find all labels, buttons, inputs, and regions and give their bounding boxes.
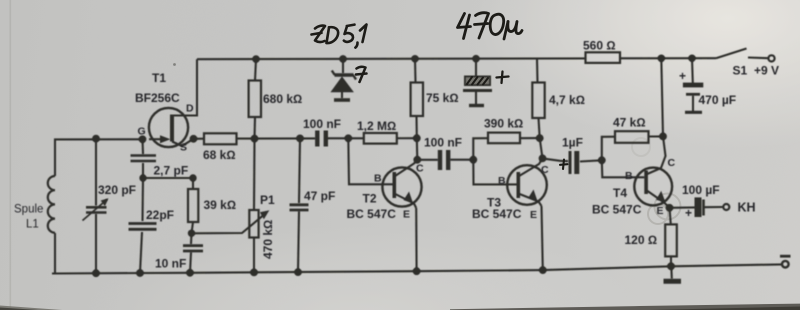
handwritten 470u <box>458 13 523 39</box>
node T4 base <box>598 156 606 164</box>
svg-text:560 Ω: 560 Ω <box>583 39 616 53</box>
svg-text:E: E <box>530 209 537 221</box>
svg-text:100 nF: 100 nF <box>424 136 462 150</box>
resistor R 1.2M <box>364 133 397 144</box>
node 47k right <box>659 133 667 141</box>
resistor R 75k <box>414 59 417 83</box>
svg-text:S: S <box>180 142 187 154</box>
svg-text:B: B <box>498 175 506 187</box>
node source T1 <box>190 135 198 143</box>
resistor R 120 <box>670 208 671 225</box>
node rail 47p <box>294 268 302 276</box>
svg-text:100 nF: 100 nF <box>303 117 341 131</box>
wire T1 source <box>172 139 194 146</box>
resistor R 4.7k <box>536 59 539 83</box>
svg-text:320 pF: 320 pF <box>98 183 136 197</box>
svg-text:C: C <box>416 163 424 175</box>
capacitor C 100uF <box>670 206 696 209</box>
switch S1 <box>716 49 747 59</box>
handwritten 7 at zener <box>356 67 367 82</box>
svg-text:10 nF: 10 nF <box>155 257 186 271</box>
handwritten ZD 5,1 <box>312 25 367 48</box>
node rail 320p <box>92 269 100 277</box>
svg-text:T2: T2 <box>363 192 377 206</box>
node 39k bottom <box>188 230 195 237</box>
node mid 47p <box>296 135 304 143</box>
node T3 collector <box>539 155 547 163</box>
svg-text:4,7 kΩ: 4,7 kΩ <box>549 93 585 107</box>
svg-text:680 kΩ: 680 kΩ <box>263 92 302 106</box>
node rail 22p <box>136 269 144 277</box>
capacitor C 1uF <box>543 158 569 161</box>
svg-text:1,2 MΩ: 1,2 MΩ <box>357 119 396 133</box>
svg-text:100 µF: 100 µF <box>682 183 720 197</box>
svg-text:C: C <box>668 157 676 169</box>
svg-text:Spule: Spule <box>14 204 43 216</box>
resistor R 560 <box>586 52 621 63</box>
paper speck near T1 <box>173 63 176 66</box>
svg-text:BC 547C: BC 547C <box>347 207 397 221</box>
photo dark edge bottom-right band <box>450 304 800 310</box>
svg-text:KH: KH <box>738 201 756 215</box>
svg-text:+9 V: +9 V <box>754 64 779 78</box>
arrow 320pF <box>101 198 109 206</box>
svg-text:L1: L1 <box>26 219 39 231</box>
svg-text:120 Ω: 120 Ω <box>625 233 658 247</box>
transistor T1 body <box>149 108 188 147</box>
node gate 2,7p <box>139 135 147 143</box>
svg-text:1µF: 1µF <box>562 136 583 150</box>
resistor R 68k <box>204 133 237 144</box>
node top rail 680k <box>252 55 260 63</box>
svg-text:C: C <box>541 164 549 176</box>
node mid 680k <box>251 135 259 143</box>
paper crease left edge <box>10 0 12 310</box>
svg-text:68 kΩ: 68 kΩ <box>203 148 236 162</box>
capacitor C 320pF (variable) <box>86 207 107 212</box>
arrow T1 gate <box>160 135 171 143</box>
node 39k top <box>189 174 196 181</box>
node top rail zener <box>339 55 347 63</box>
capacitor C 2,7pF <box>131 156 157 162</box>
wire gate branch <box>141 139 144 154</box>
mid wire stage1 <box>194 138 205 140</box>
svg-text:T4: T4 <box>613 186 627 200</box>
node top rail 470u <box>472 55 480 63</box>
arrow P1 wiper <box>260 210 270 219</box>
capacitor C 10nF <box>190 233 193 244</box>
svg-text:B: B <box>374 173 382 185</box>
node rail T3e <box>539 266 547 274</box>
svg-text:P1: P1 <box>260 193 275 207</box>
node top rail 75k <box>411 55 419 63</box>
wire wiper to P1 <box>192 214 266 234</box>
svg-text:22pF: 22pF <box>146 208 174 222</box>
svg-text:G: G <box>138 126 146 138</box>
resistor R 390k feedback <box>473 138 488 160</box>
node rail 10nF <box>186 269 194 277</box>
svg-text:E: E <box>403 209 410 221</box>
node 390k right <box>536 134 544 142</box>
svg-text:47 kΩ: 47 kΩ <box>613 116 646 130</box>
svg-text:75 kΩ: 75 kΩ <box>426 91 459 105</box>
svg-text:B: B <box>625 170 633 182</box>
svg-text:470 kΩ: 470 kΩ <box>261 220 275 259</box>
potentiometer P1 <box>253 139 256 210</box>
node top rail 470uF right <box>688 54 696 62</box>
svg-text:47 pF: 47 pF <box>304 189 335 203</box>
bottom rail <box>52 264 782 273</box>
capacitor C 100nF (2nd) <box>417 159 438 161</box>
zener diode ZD 5.1 <box>342 59 344 73</box>
node T2 collector <box>413 156 421 164</box>
node 2,7p bottom left <box>139 174 146 181</box>
node rail 120R <box>667 262 675 270</box>
wire rail to T4 collector <box>661 58 663 136</box>
transistor T3 <box>473 160 516 185</box>
svg-text:BF256C: BF256C <box>135 91 180 105</box>
svg-text:T1: T1 <box>152 71 166 85</box>
svg-text:+: + <box>679 69 686 83</box>
node T3 base top <box>469 156 477 164</box>
node rail P1 <box>250 269 258 277</box>
wire T1 drain riser <box>172 59 197 115</box>
wire 320pF branch <box>95 139 97 206</box>
handwritten annotations <box>312 13 568 169</box>
transistor T2 <box>348 138 392 184</box>
node top rail 47k riser <box>658 55 666 63</box>
node gate 320p <box>92 135 100 143</box>
resistor R 47k <box>602 137 615 161</box>
hatch strokes on 470u top plate <box>467 77 488 85</box>
handwritten plus at 470u top <box>497 72 509 84</box>
faint pencil ghost rings <box>632 138 681 224</box>
svg-text:2,7 pF: 2,7 pF <box>154 164 189 178</box>
terminal KH <box>723 204 729 210</box>
svg-text:D: D <box>186 103 194 115</box>
svg-text:E: E <box>657 205 664 217</box>
capacitor C 100nF (1st) <box>315 131 319 147</box>
transistor T4 <box>602 160 645 177</box>
wire T1 gate <box>149 138 162 140</box>
battery terminal minus <box>782 261 789 268</box>
coil branch wire <box>55 139 143 176</box>
node rail T2e <box>413 267 421 275</box>
ground <box>670 266 673 278</box>
svg-text:+: + <box>685 206 692 220</box>
capacitor C 22pF <box>129 224 157 230</box>
node T2 base <box>344 134 352 142</box>
svg-text:BC 547C: BC 547C <box>592 203 642 217</box>
svg-text:BC 547C: BC 547C <box>472 207 522 221</box>
capacitor C 470uF top (filter) <box>475 59 477 76</box>
resistor R 680k <box>255 59 256 80</box>
node T4 emitter <box>666 204 674 212</box>
svg-text:470 µF: 470 µF <box>699 93 737 107</box>
svg-text:39 kΩ: 39 kΩ <box>204 198 237 212</box>
resistor R 39k <box>192 178 194 189</box>
photo dark edge bottom-left corner <box>0 306 62 310</box>
node T2 collector top <box>413 134 421 142</box>
printed labels <box>14 39 779 271</box>
capacitor C 47pF branch <box>299 138 300 203</box>
capacitor C 470uF right <box>691 58 694 83</box>
top rail <box>197 57 586 60</box>
svg-text:S1: S1 <box>733 64 748 78</box>
handwritten plus at 1uF <box>560 160 568 170</box>
inductor L1 <box>48 176 55 233</box>
svg-text:390 kΩ: 390 kΩ <box>484 117 523 131</box>
